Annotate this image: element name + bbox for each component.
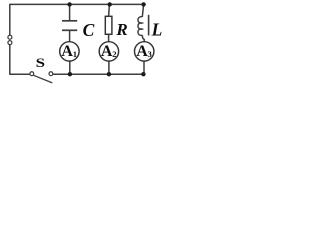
svg-text:C: C: [83, 20, 95, 40]
svg-text:3: 3: [148, 49, 152, 59]
svg-text:A: A: [61, 43, 73, 60]
svg-text:A: A: [101, 43, 113, 60]
svg-text:S: S: [36, 56, 45, 70]
svg-text:A: A: [136, 43, 148, 60]
svg-text:2: 2: [112, 49, 116, 59]
svg-text:L: L: [151, 20, 163, 40]
svg-text:R: R: [115, 20, 127, 39]
svg-text:1: 1: [73, 49, 77, 59]
